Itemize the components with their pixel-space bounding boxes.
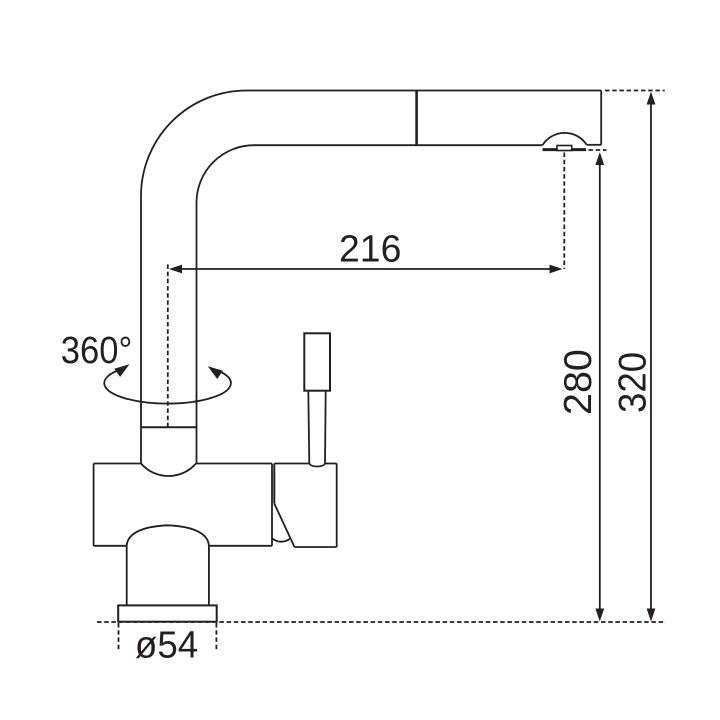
mounting surface line [97, 621, 666, 623]
dimension lines [180, 104, 651, 610]
body top edge [94, 463, 272, 465]
arrowhead 216 right [550, 265, 563, 274]
spout right edge [600, 91, 602, 145]
handle rod [308, 391, 325, 467]
handle mount top edge [274, 463, 336, 465]
rotation arc 360 [104, 371, 231, 404]
aerator nozzle [557, 146, 572, 151]
aerator dome [543, 133, 587, 145]
dim line 280 [599, 164, 601, 610]
rotation arrowhead right [208, 366, 223, 379]
riser joint line [141, 426, 196, 428]
handle knob [304, 333, 330, 390]
spout divider line [415, 91, 418, 146]
riser centerline [167, 264, 169, 427]
base column arch [127, 525, 209, 546]
spout top extension [605, 90, 665, 92]
arrowhead 320 top [647, 92, 656, 105]
spout bottom left segment + inner curve + riser inner line [197, 145, 543, 463]
body left edge [93, 464, 95, 546]
aerator centerline [563, 153, 565, 270]
svg-text:ø54: ø54 [135, 625, 198, 667]
dim line 216 [180, 268, 551, 270]
flange extension left [118, 623, 120, 650]
faucet outer profile (riser + spout top) [141, 91, 601, 464]
handle mount right edge [336, 464, 338, 548]
handle mount diagonal [274, 504, 294, 547]
dim line 320 [650, 104, 652, 610]
base column sides [127, 546, 209, 606]
body right edge [271, 464, 273, 546]
rotation arrowhead left [114, 364, 129, 377]
aerator base plate [543, 148, 587, 151]
spout bottom right segment [587, 144, 602, 146]
svg-text:320: 320 [611, 352, 654, 413]
handle mount bottom edge [295, 546, 337, 548]
svg-text:360°: 360° [61, 330, 133, 372]
arrowhead 216 left [169, 265, 182, 274]
aerator level extension [589, 149, 607, 151]
arrowhead 320 bottom [647, 609, 656, 622]
arrowhead 280 top [595, 152, 604, 165]
body bottom edge [94, 545, 272, 547]
arrowhead 280 bottom [595, 609, 604, 622]
handle mount bottom arc [272, 538, 290, 541]
dashed lines [97, 91, 666, 651]
handle mount left edge [273, 464, 275, 504]
riser socket dome in body [141, 464, 196, 477]
flange extension right [215, 623, 217, 650]
svg-text:216: 216 [339, 229, 401, 271]
base flange [118, 605, 217, 621]
svg-text:280: 280 [557, 349, 600, 415]
